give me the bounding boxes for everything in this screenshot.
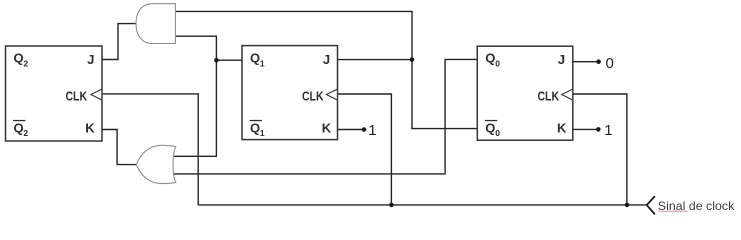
label K pin of FF Q1 (322, 121, 332, 136)
label Sinal de clock (658, 199, 736, 213)
label constant 0 at J of Q0 (606, 55, 614, 72)
svg-text:Q: Q (250, 121, 260, 136)
label Q1 output (inside FF Q1) (250, 51, 265, 69)
label K pin of FF Q0 (557, 121, 567, 136)
label Q2 output (inside FF Q2) (14, 51, 29, 69)
svg-text:J: J (558, 52, 565, 67)
wire CLK of FF Q0 down to clock line (573, 94, 627, 205)
svg-text:CLK: CLK (302, 89, 324, 103)
label CLK pin of FF Q2 (66, 89, 88, 103)
svg-text:Q: Q (14, 51, 24, 66)
wire Q0 output to OR gate bottom input (174, 59, 477, 173)
label K pin of FF Q2 (85, 121, 95, 136)
flip-flop U3 box (Q2) (6, 46, 103, 141)
wire CLK of FF Q1 down to clock line (338, 94, 392, 205)
label J pin of FF Q2 (87, 52, 94, 67)
svg-text:2: 2 (23, 59, 28, 69)
svg-text:1: 1 (368, 122, 376, 139)
clock edge triangle of FF Q0 (562, 89, 573, 100)
wire AND gate top input from node A (Q0-bar net) (175, 11, 477, 128)
wire OR gate output to K input of FF Q2 (102, 130, 137, 165)
svg-text:K: K (557, 121, 567, 136)
label Q0-bar output (inside FF Q0) (485, 120, 500, 138)
svg-text:1: 1 (260, 128, 265, 138)
junction dot clock line at CLK Q0 branch (625, 203, 630, 208)
wire K input of FF Q1 to constant 1 (338, 129, 364, 131)
svg-text:CLK: CLK (66, 89, 88, 103)
label Q1-bar output (inside FF Q1) (250, 120, 265, 138)
terminal dot constant 1 at K of Q1 (362, 127, 367, 132)
clock edge triangle of FF Q2 (91, 89, 102, 100)
junction node A dot (J1 / AND / Q0-bar net) (410, 57, 415, 62)
wire AND gate bottom input from Q1 output (node B) (175, 36, 243, 60)
svg-text:Q: Q (250, 51, 260, 66)
label CLK pin of FF Q0 (538, 89, 560, 103)
svg-text:1: 1 (604, 122, 612, 139)
svg-text:1: 1 (260, 59, 265, 69)
svg-text:CLK: CLK (538, 89, 560, 103)
wire AND gate output to J input of FF Q2 (102, 24, 137, 60)
label constant 1 at K of Q0 (604, 122, 612, 139)
svg-text:J: J (87, 52, 94, 67)
spellcheck underline under Sinal (658, 211, 687, 212)
svg-text:Q: Q (485, 51, 495, 66)
svg-text:Q: Q (14, 121, 24, 136)
wire J input of FF Q0 to constant 0 (573, 61, 599, 63)
clock edge triangle of FF Q1 (326, 89, 337, 100)
AND gate U1 (left-facing) (136, 4, 175, 44)
label J pin of FF Q0 (558, 52, 565, 67)
label CLK pin of FF Q1 (302, 89, 324, 103)
wire CLK of FF Q2 down to clock line (102, 94, 198, 205)
wire J input of FF Q1 to node A (338, 59, 412, 61)
label J pin of FF Q1 (323, 52, 330, 67)
wire K input of FF Q0 to constant 1 (573, 128, 599, 130)
svg-text:2: 2 (23, 128, 28, 138)
svg-text:0: 0 (606, 55, 614, 72)
svg-text:K: K (322, 121, 332, 136)
label Q0 output (inside FF Q0) (485, 51, 500, 69)
svg-text:Q: Q (485, 121, 495, 136)
OR gate U2 (left-facing) (136, 145, 176, 183)
svg-text:0: 0 (495, 59, 500, 69)
junction dot clock line at CLK Q1 branch (389, 203, 394, 208)
terminal dot constant 1 at K of Q0 (596, 127, 601, 132)
wire node B down to OR gate top input (174, 60, 216, 156)
label Q2-bar output (inside FF Q2) (13, 120, 28, 138)
terminal dot constant 0 at J of Q0 (596, 59, 601, 64)
svg-text:0: 0 (495, 128, 500, 138)
svg-text:J: J (323, 52, 330, 67)
svg-text:K: K (85, 121, 95, 136)
clock source arrow (647, 196, 655, 214)
label constant 1 at K of Q1 (368, 122, 376, 139)
flip-flop U4 box (Q1) (242, 46, 338, 140)
junction node B dot (Q1 output net) (214, 58, 219, 63)
wire clock distribution line (198, 204, 646, 206)
flip-flop U5 box (Q0) (477, 46, 573, 140)
